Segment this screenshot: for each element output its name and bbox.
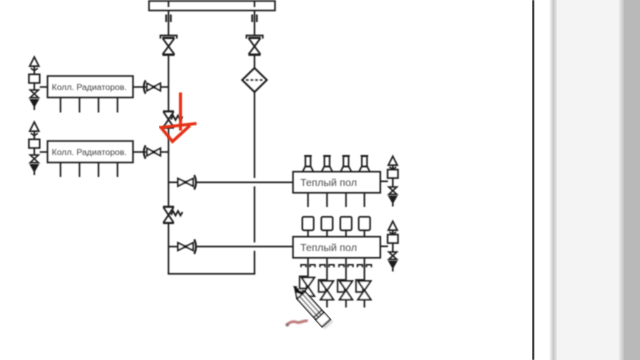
wire: V4 to left riser [160, 151, 168, 153]
check valve CV2 with handle (left riser) [163, 207, 183, 223]
air-vent/drain stack S1 (left of M1) [29, 57, 40, 110]
pencil cursor shadow [299, 293, 333, 329]
union on right riser [252, 15, 257, 23]
balancing valve V1 (left riser) [160, 35, 176, 54]
FM2 loop stub L1 [301, 258, 315, 278]
right side panel light strip [549, 0, 558, 360]
M2 outlet stubs [61, 163, 118, 177]
balancing valve V2 (right riser) [246, 35, 262, 54]
FM1 outlet stubs [308, 193, 364, 207]
return stub inside box [254, 2, 256, 8]
wire: M1 to shut-off valve [133, 86, 146, 88]
FM1 actuator A1 [303, 156, 314, 172]
wire: bottom return run [168, 273, 256, 275]
branch valve V6 (to floor manifold FM2) [169, 239, 197, 254]
FM2 valve cap B1 [302, 217, 313, 237]
radiator manifold M1 box [48, 76, 134, 98]
radiator manifold M2 box [48, 141, 134, 163]
wire: left riser upper [168, 11, 170, 36]
wire: left riser below CV1 [168, 128, 170, 207]
check valve CV1 with handle (left riser) [163, 111, 183, 127]
pencil cursor [289, 282, 331, 327]
wire: right riser bottom segment [254, 251, 256, 274]
air-vent/drain stack S2 (left of M2) [29, 122, 40, 175]
wire: right riser segment between crossings [254, 186, 256, 242]
FM1 actuator A2 [322, 156, 333, 172]
FM2 loop stub L3 [339, 258, 353, 281]
M1 outlet stubs [61, 98, 118, 113]
air-vent/drain stack S4 (right of FM2) [388, 221, 398, 271]
svg-text:Теплый пол: Теплый пол [300, 243, 357, 254]
wire: V5 to FM1 [196, 181, 294, 183]
loop valve W4 [356, 280, 371, 308]
wire: S2 to M2 [40, 151, 48, 153]
wire: FM1 to stack S3 [380, 180, 388, 182]
red marker squiggle [286, 321, 308, 327]
air-vent/drain stack S3 (right of FM1) [388, 156, 398, 206]
FM1 actuator A4 [359, 156, 370, 172]
supply stub inside box [168, 2, 170, 8]
shut-off valve V3 (M1 to riser) [144, 80, 161, 93]
FM2 loop stub L4 [357, 258, 371, 281]
wire: left riser between V1 and check valve [168, 56, 170, 112]
wire: FM2 to stack S4 [380, 245, 388, 247]
loop valve W1 [300, 276, 315, 304]
loop valve W2 [319, 280, 334, 308]
top collector box [149, 1, 275, 11]
filter F1 (diamond) [242, 68, 267, 92]
FM2 valve cap B2 [321, 217, 332, 237]
svg-text:Колл. Радиаторов.: Колл. Радиаторов. [52, 147, 127, 157]
wire: right riser valve to filter [254, 56, 256, 69]
wire: V6 to FM2 [196, 246, 294, 248]
loop valve W3 [338, 280, 353, 308]
shut-off valve V4 (M2 to riser) [144, 145, 161, 158]
wire: S1 to M1 [40, 86, 48, 88]
floor heating manifold FM1 box [293, 172, 380, 193]
svg-text:Колл. Радиаторов.: Колл. Радиаторов. [52, 82, 127, 92]
wire: V3 to left riser [160, 86, 168, 88]
wire: M2 to shut-off valve [133, 151, 146, 153]
FM1 actuator A3 [341, 156, 352, 172]
FM2 valve cap B4 [359, 217, 370, 237]
FM2 loop stub L2 [320, 258, 334, 281]
svg-text:Теплый пол: Теплый пол [300, 178, 357, 189]
window divider dark line [532, 0, 534, 360]
wire: right riser segment below filter [254, 92, 256, 178]
wire: left riser below CV2 [168, 223, 170, 274]
wire: right riser upper [254, 11, 256, 36]
branch valve V5 (to floor manifold FM1) [169, 175, 197, 190]
floor heating manifold FM2 box [293, 237, 380, 258]
union on left riser [166, 15, 171, 23]
red annotation arrow [161, 93, 197, 142]
FM2 valve cap B3 [340, 217, 351, 237]
